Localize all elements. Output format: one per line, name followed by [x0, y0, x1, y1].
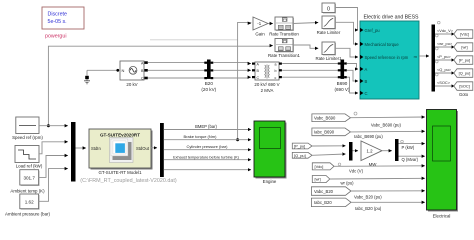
rate limiter1 [315, 42, 358, 61]
svg-text:Vabc_B690 (pu): Vabc_B690 (pu) [371, 122, 402, 127]
svg-text:Rate Transition: Rate Transition [269, 32, 299, 37]
svg-text:b: b [275, 69, 277, 73]
svg-text:a: a [275, 63, 277, 67]
svg-text:Iabc_B690: Iabc_B690 [314, 130, 335, 135]
svg-text:Speed reference in rpm: Speed reference in rpm [365, 55, 409, 60]
svg-text:Ambient temp (K): Ambient temp (K) [10, 189, 45, 194]
ambient temp constant [10, 156, 67, 194]
svg-text:GT-SUITEv2020RT: GT-SUITEv2020RT [100, 133, 140, 138]
svg-text:GT-SUITE-RT Model1: GT-SUITE-RT Model1 [98, 170, 142, 175]
svg-text:Gref_pu: Gref_pu [365, 28, 381, 33]
from tag Q_pu [292, 152, 345, 158]
Electrical scope [427, 110, 459, 219]
svg-text:Cylinder pressure (bar): Cylinder pressure (bar) [187, 144, 229, 149]
goto tag wr [454, 43, 473, 52]
demux of measurement bus [419, 25, 435, 92]
svg-text:-1: -1 [257, 21, 261, 26]
svg-text:1.2: 1.2 [367, 149, 374, 154]
svg-text:c: c [275, 76, 277, 80]
svg-text:[wr]: [wr] [315, 177, 321, 182]
goto wires and labels [435, 21, 455, 86]
svg-text:Vabc_B20 (pu): Vabc_B20 (pu) [354, 195, 382, 200]
svg-text:wr (pu): wr (pu) [341, 181, 355, 186]
svg-text:[Q_pu]: [Q_pu] [459, 71, 471, 76]
voltage source 20 kV [120, 61, 148, 87]
three-phase wires B20 to transformer [213, 63, 251, 78]
bus B690 [334, 60, 350, 92]
mux engine inputs [71, 122, 86, 182]
svg-text:Discrete: Discrete [48, 12, 67, 18]
svg-text:Rate Transition1: Rate Transition1 [268, 53, 301, 58]
svg-text:<wr_pu>: <wr_pu> [437, 41, 453, 46]
wire speed-ref to rate transition1 [47, 46, 273, 128]
svg-text:StdOut: StdOut [136, 146, 150, 151]
svg-text:C: C [257, 76, 260, 80]
svg-text:P (kW): P (kW) [402, 145, 415, 150]
svg-text:Iabc_B20: Iabc_B20 [314, 200, 332, 205]
svg-text:Brake torque (Nm): Brake torque (Nm) [184, 134, 218, 139]
three-phase wires source to B20 [148, 63, 205, 78]
GT-SUITE block [80, 129, 177, 184]
svg-text:[P_pu]: [P_pu] [459, 58, 470, 63]
svg-text:Q (Mvar): Q (Mvar) [402, 157, 419, 162]
svg-text:[Q_pu]: [Q_pu] [294, 153, 306, 158]
svg-text:Electrical: Electrical [433, 214, 451, 219]
svg-text:BMEP (bar): BMEP (bar) [195, 124, 217, 129]
goto tag Q_pu [454, 69, 473, 78]
svg-text:A: A [365, 67, 368, 72]
svg-text:0: 0 [327, 7, 330, 13]
svg-text:C: C [141, 77, 144, 81]
load ref source [15, 142, 68, 169]
svg-text:Mechanical torque: Mechanical torque [365, 42, 400, 47]
svg-text:powergui: powergui [45, 33, 67, 39]
demux PQ [395, 139, 425, 162]
svg-text:<SOC>: <SOC> [437, 80, 451, 85]
from tag Vdc [312, 163, 425, 174]
constant 0 [322, 3, 358, 30]
from tag Iabc_B20 [311, 198, 424, 211]
rate limiter [317, 16, 358, 44]
svg-text:(C:\FRM_RT_coupled_latest-V202: (C:\FRM_RT_coupled_latest-V2020.dat) [80, 178, 177, 184]
transformer 20kV/690V [252, 62, 282, 93]
bus B20 [201, 60, 216, 92]
svg-text:Iabc_B690 (pu): Iabc_B690 (pu) [354, 134, 383, 139]
svg-text:Exhaust temperature before tur: Exhaust temperature before turbine (K) [173, 155, 240, 159]
svg-text:2 MVA: 2 MVA [261, 88, 274, 93]
goto tag SOC [454, 82, 473, 97]
svg-text:Electric drive and BESS: Electric drive and BESS [363, 14, 419, 20]
svg-text:StdIn: StdIn [91, 146, 101, 151]
from tag P_pu [292, 143, 345, 149]
svg-text:(20 kV): (20 kV) [201, 87, 216, 92]
engine output wires [164, 124, 251, 170]
svg-text:B690: B690 [337, 81, 348, 86]
svg-text:Goto: Goto [459, 92, 469, 97]
svg-text:20 kV/ 690 V: 20 kV/ 690 V [254, 82, 279, 87]
svg-text:Gain: Gain [255, 32, 265, 37]
svg-text:Vabc_B20: Vabc_B20 [314, 189, 334, 194]
svg-text:5e-05 s.: 5e-05 s. [48, 19, 67, 25]
wire brake-torque to gain [236, 22, 251, 141]
electric drive and BESS block [360, 14, 419, 99]
mux PQ [349, 142, 358, 161]
svg-text:[wr]: [wr] [461, 45, 467, 50]
from tag Vabc_B690 [312, 112, 425, 127]
svg-text:Rate Limiter1: Rate Limiter1 [315, 56, 342, 61]
svg-text:B: B [365, 79, 368, 84]
svg-text:<P_pu>: <P_pu> [437, 54, 451, 59]
svg-text:Ambient pressure (bar): Ambient pressure (bar) [5, 211, 50, 216]
ambient pressure constant [5, 169, 68, 217]
svg-text:(690 V): (690 V) [334, 87, 350, 92]
svg-text:[Vdc]: [Vdc] [460, 32, 469, 37]
from tag wr [312, 176, 425, 186]
svg-text:Speed ref (rpm): Speed ref (rpm) [12, 135, 43, 140]
Engine scope [254, 121, 287, 184]
svg-text:Rate Limiter: Rate Limiter [317, 30, 341, 35]
svg-text:[Vdc]: [Vdc] [315, 164, 324, 169]
rate transition1 [268, 39, 318, 59]
demux engine outputs [151, 123, 164, 177]
svg-text:N: N [122, 68, 125, 73]
svg-text:301.7: 301.7 [23, 176, 35, 181]
speed ref source [12, 117, 68, 140]
svg-text:Engine: Engine [263, 179, 277, 184]
wires B690 to drive A B C [347, 64, 358, 94]
goto tag P_pu [454, 56, 473, 65]
svg-text:20 kV: 20 kV [126, 82, 137, 87]
from tag Iabc_B690 [312, 128, 425, 139]
svg-text:[SOC]: [SOC] [459, 84, 470, 89]
svg-text:[P_pu]: [P_pu] [294, 144, 305, 149]
from tag Vabc_B20 [311, 187, 424, 200]
svg-text:<Q_pu>: <Q_pu> [437, 67, 452, 72]
svg-text:<Vdc_V>: <Vdc_V> [437, 28, 454, 33]
rate transition [269, 17, 318, 37]
svg-text:Vdc (V): Vdc (V) [349, 169, 364, 174]
ground [84, 69, 119, 84]
svg-text:1.62: 1.62 [25, 200, 34, 205]
svg-text:C: C [365, 91, 368, 96]
svg-text:Vabc_B690: Vabc_B690 [314, 116, 336, 121]
svg-text:Load ref (kW): Load ref (kW) [16, 163, 43, 168]
goto tag Vdc [454, 30, 473, 39]
svg-text:B20: B20 [205, 81, 214, 86]
gain -1 [253, 17, 273, 37]
gain MW [361, 141, 392, 167]
powergui block [42, 7, 84, 39]
three-phase wires transformer to B690 [282, 64, 338, 78]
faint annotation line [150, 39, 238, 41]
svg-text:Iabc_B20 (pu): Iabc_B20 (pu) [355, 206, 382, 211]
